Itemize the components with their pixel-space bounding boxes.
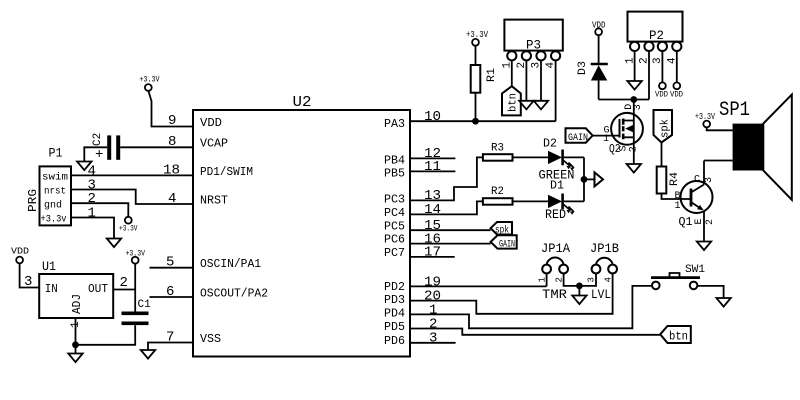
svg-text:PC3: PC3 (384, 193, 405, 207)
svg-text:NRST: NRST (200, 194, 228, 208)
svg-text:JP1A: JP1A (541, 241, 570, 256)
net flag btn at P3 (502, 86, 521, 115)
wire LED join vertical (584, 157, 595, 201)
svg-text:P2: P2 (649, 28, 664, 43)
svg-text:+3.3v: +3.3v (41, 214, 67, 226)
ground Q2 source (627, 164, 641, 173)
jumper JP1A (538, 241, 571, 302)
svg-text:3: 3 (587, 277, 597, 282)
net flag spk at PC5 (491, 222, 512, 237)
svg-text:RED: RED (545, 208, 566, 222)
LED D2 GREEN (539, 137, 575, 183)
wire D3 to P2 pin2 net (599, 99, 649, 101)
svg-text:D3: D3 (577, 61, 589, 75)
svg-text:VDD: VDD (11, 247, 29, 257)
svg-text:U2: U2 (293, 94, 312, 111)
wire ADJ pin (75, 318, 77, 354)
power VDD at D3 (592, 21, 606, 36)
svg-text:PD1/SWIM: PD1/SWIM (200, 165, 253, 179)
svg-text:btn: btn (508, 93, 520, 112)
svg-text:10: 10 (424, 109, 441, 125)
wire U1 OUT to +3.3V (113, 289, 135, 291)
wire R3 to D2 (513, 156, 549, 158)
ground SW1 (716, 298, 730, 307)
resistor R2 (483, 186, 513, 205)
ground VSS (141, 350, 155, 359)
wire +3.3V down through C1 (134, 264, 136, 312)
svg-text:17: 17 (424, 245, 441, 261)
svg-text:VDD: VDD (200, 116, 222, 130)
wire C2 left to ground (84, 147, 107, 161)
wire P2 pin1 to ground (634, 51, 636, 81)
svg-text:C2: C2 (92, 133, 104, 146)
ground U1 (68, 354, 82, 363)
power VDD P2 pin3 (655, 82, 668, 99)
svg-text:U1: U1 (42, 259, 56, 274)
transistor Q2 MOSFET (603, 100, 644, 165)
wire +3.3V to speaker (707, 127, 733, 130)
svg-text:Q1: Q1 (679, 215, 693, 229)
svg-text:+3.3V: +3.3V (140, 75, 161, 85)
svg-text:3: 3 (24, 274, 32, 290)
svg-text:GAIN: GAIN (499, 240, 515, 251)
transistor Q1 (675, 161, 717, 242)
net flag btn at PD5 (660, 326, 691, 344)
svg-text:R1: R1 (486, 68, 498, 82)
svg-text:3: 3 (704, 177, 715, 183)
svg-text:PC5: PC5 (384, 220, 405, 234)
resistor R4 (657, 167, 681, 194)
svg-text:PB5: PB5 (384, 167, 405, 181)
wire JP1A pin2 to ground junction to JP1B pin3 (564, 273, 596, 295)
wire D2 cathode to join (564, 156, 584, 158)
svg-text:swim: swim (42, 172, 68, 184)
wire PD2 pin19 to JP1A (410, 273, 547, 286)
wire spk to R4 (661, 143, 663, 167)
wire P1 pin1 to ground (71, 218, 114, 239)
svg-text:D1: D1 (550, 179, 564, 193)
svg-text:PA3: PA3 (384, 117, 405, 131)
wire R2 to D1 (513, 200, 549, 202)
svg-text:PD2: PD2 (384, 280, 405, 294)
svg-text:3: 3 (429, 331, 437, 347)
capacitor C1 (122, 299, 152, 325)
svg-text:SW1: SW1 (685, 264, 705, 276)
svg-text:VSS: VSS (200, 332, 221, 346)
power +3.3V at R1 (466, 30, 488, 46)
wire P3 pin2 to ground (525, 60, 527, 100)
svg-text:gnd: gnd (44, 200, 62, 212)
svg-text:TMR: TMR (542, 288, 568, 302)
switch SW1 (651, 264, 705, 289)
svg-text:2: 2 (705, 219, 716, 225)
wire PC5 pin15 to spk flag (410, 229, 491, 231)
ground C2 (77, 162, 91, 171)
svg-text:1: 1 (88, 206, 96, 222)
svg-text:11: 11 (424, 159, 441, 175)
junction Q2 drain net (630, 96, 637, 103)
wire PB5 stub pin11 (410, 170, 455, 172)
wire PD4 pin1 to SW1 (410, 286, 652, 328)
capacitor C2 (92, 133, 120, 163)
svg-text:PD5: PD5 (384, 320, 405, 334)
svg-text:VDD: VDD (670, 90, 683, 100)
wire C2 right to VCAP pin8 (120, 146, 193, 148)
svg-text:VDD: VDD (655, 90, 668, 100)
connector P2 (624, 12, 682, 64)
junction R1/PA3 (472, 118, 479, 125)
svg-text:C1: C1 (138, 299, 152, 311)
wire speaker to Q1 collector (704, 160, 733, 162)
wire SW1 right to ground (697, 286, 723, 298)
wire PB4 stub pin12 (410, 157, 455, 159)
wire P3 pin4 down to PA3 rail (555, 60, 557, 121)
wire OSCOUT stub pin6 (150, 296, 194, 298)
wire PD5 pin2 to btn flag (410, 329, 660, 335)
ground jumpers (572, 296, 586, 305)
resistor R1 (471, 46, 498, 122)
svg-text:JP1B: JP1B (590, 241, 619, 256)
ground P2 pin1 (627, 81, 641, 90)
svg-text:PRG: PRG (26, 189, 40, 212)
wire P3 pin3 to ground (540, 60, 542, 100)
svg-text:GAIN: GAIN (568, 133, 588, 144)
svg-text:D2: D2 (543, 137, 557, 151)
power +3.3V at P1 (119, 217, 138, 234)
regulator U1 (39, 259, 113, 318)
svg-text:C: C (694, 175, 700, 186)
wire PD6 stub pin3 (410, 342, 456, 344)
svg-text:PC7: PC7 (384, 246, 405, 260)
ground P1 (107, 239, 121, 248)
wire P2 pin3 to VDD (661, 51, 663, 82)
wire nrst to NRST pin4 (71, 190, 193, 205)
svg-text:spk: spk (660, 119, 672, 138)
wire +3.3V to pin9 (148, 91, 193, 127)
svg-text:14: 14 (424, 202, 441, 218)
power +3.3V at U1 (126, 249, 146, 264)
svg-text:+: + (95, 147, 103, 163)
svg-text:1: 1 (538, 277, 548, 282)
wire PC4 pin14 to R2 (410, 201, 483, 214)
connector P1 (26, 146, 71, 226)
junction ADJ (72, 341, 79, 348)
svg-text:PD4: PD4 (384, 307, 405, 321)
net flag GAIN at PC6 (491, 235, 517, 250)
resistor R3 (483, 143, 513, 161)
net flag GAIN at Q2 gate (566, 128, 593, 144)
svg-text:OUT: OUT (88, 282, 108, 296)
svg-text:nrst: nrst (44, 186, 66, 198)
svg-text:E: E (694, 218, 705, 224)
svg-text:IN: IN (45, 282, 58, 296)
wire D1 cathode to join (564, 200, 584, 202)
wire PC7 stub pin17 (410, 256, 455, 258)
power +3.3V top left (140, 75, 161, 91)
power VDD left (11, 247, 29, 264)
wire PD3 pin20 to JP1B pin4 (410, 273, 613, 313)
wire gnd pin to +3.3V symbol (71, 203, 128, 217)
wire P2 pin2 down (648, 51, 650, 100)
LED D1 RED (545, 179, 574, 223)
svg-text:LVL: LVL (591, 288, 611, 302)
svg-text:ADJ: ADJ (70, 294, 84, 314)
svg-text:OSCOUT/PA2: OSCOUT/PA2 (200, 287, 268, 301)
svg-text:R3: R3 (491, 143, 504, 155)
wire P2 pin4 to VDD (676, 51, 678, 82)
wire VSS pin7 to ground (148, 343, 193, 351)
svg-text:VCAP: VCAP (200, 137, 228, 151)
wire R4 to Q1 base (662, 194, 692, 200)
power +3.3V at speaker (695, 112, 715, 127)
wire VDD to U1 IN (20, 263, 40, 287)
svg-text:2: 2 (629, 146, 640, 152)
IC U2 (193, 94, 410, 357)
ground P3 pin2 (519, 101, 533, 110)
svg-text:SP1: SP1 (719, 99, 750, 122)
net flag spk vertical at R4 (654, 110, 673, 143)
wire PC6 pin16 to GAIN flag (410, 243, 491, 245)
wire OSCIN stub pin5 (150, 267, 194, 269)
junction jumper ground (576, 283, 583, 290)
ground LED right-pointing (595, 172, 604, 186)
svg-text:R2: R2 (491, 186, 504, 198)
svg-text:P3: P3 (526, 38, 541, 53)
svg-text:btn: btn (669, 330, 688, 344)
svg-text:PD3: PD3 (384, 293, 405, 307)
junction LED join (581, 176, 588, 183)
svg-text:Q2: Q2 (609, 142, 621, 156)
wire GAIN to gate (593, 135, 620, 137)
svg-text:+3.3V: +3.3V (119, 224, 138, 234)
svg-text:PC6: PC6 (384, 233, 405, 247)
wire swim to PD1/SWIM pin18 (71, 174, 193, 176)
speaker SP1 (719, 95, 792, 200)
svg-text:P1: P1 (49, 146, 63, 161)
wire PA3 pin10 rail (410, 120, 556, 122)
svg-text:PB4: PB4 (384, 154, 405, 168)
power VDD P2 pin4 (670, 82, 683, 99)
wire PC3 pin13 to R3 (410, 157, 483, 200)
jumper JP1B (587, 241, 620, 302)
svg-text:OSCIN/PA1: OSCIN/PA1 (200, 257, 261, 271)
svg-text:3: 3 (633, 104, 644, 110)
ground Q1 emitter (697, 242, 711, 251)
svg-text:R4: R4 (669, 172, 681, 186)
wire P3 pin1 to btn flag (511, 60, 513, 86)
diode D3 (577, 35, 608, 99)
svg-text:1: 1 (675, 201, 681, 212)
svg-text:PC4: PC4 (384, 206, 405, 220)
ground P3 pin3 (534, 101, 548, 110)
wire C1 bottom to ADJ rail (76, 325, 136, 345)
svg-text:PD6: PD6 (384, 334, 405, 348)
connector P3 (502, 20, 563, 69)
